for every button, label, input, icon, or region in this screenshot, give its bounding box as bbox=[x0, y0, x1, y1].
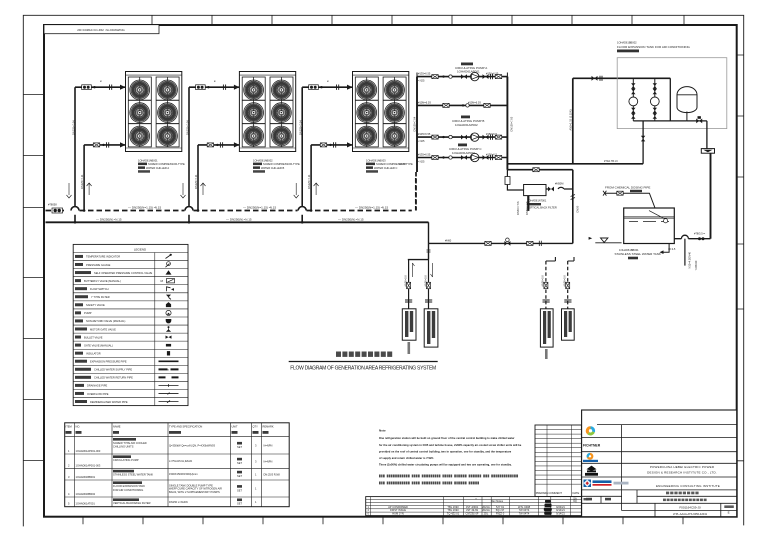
unit 3 supply riser bbox=[298, 87, 352, 222]
svg-text:1OHAD61AP001-003: 1OHAD61AP001-003 bbox=[76, 463, 101, 467]
AHU terminal 2 bbox=[424, 309, 438, 347]
title block frame bbox=[582, 410, 737, 517]
unit 1 inlet arrow top bbox=[120, 85, 126, 90]
svg-text:#135=6.55: #135=6.55 bbox=[418, 152, 431, 156]
makeup pump 2 bbox=[650, 78, 659, 121]
svg-text:DEMINERALISED WATER PIPE: DEMINERALISED WATER PIPE bbox=[90, 400, 128, 404]
svg-text:DN125=7.11: DN125=7.11 bbox=[307, 174, 311, 189]
svg-text:#70A.7B •N: #70A.7B •N bbox=[604, 159, 618, 163]
legend row l4 bbox=[75, 384, 179, 388]
svg-text:POWERCHINA HEBEI ELECTRIC POWE: POWERCHINA HEBEI ELECTRIC POWER bbox=[650, 465, 715, 469]
consultant logo 2 bbox=[583, 453, 598, 462]
unit 1 inlet arrow bottom bbox=[120, 142, 126, 147]
legend row gauge bbox=[75, 262, 170, 268]
svg-text:FLOOR EXPANSION TANK FOR AIR C: FLOOR EXPANSION TANK FOR AIR CONDITIONIN… bbox=[617, 45, 691, 49]
drawing title cells bbox=[663, 492, 734, 517]
unit 3 return valve bbox=[320, 142, 335, 147]
equipment table bbox=[65, 423, 290, 507]
svg-text:ITEM: ITEM bbox=[66, 424, 72, 428]
svg-text:LEGEND: LEGEND bbox=[134, 248, 147, 252]
legend row l5 bbox=[75, 392, 179, 396]
makeup supply drop line bbox=[507, 168, 579, 244]
water level symbol bbox=[589, 237, 622, 243]
expansion tank enclosure bbox=[617, 41, 727, 129]
svg-text:FLOOR EXPANSION TANK: FLOOR EXPANSION TANK bbox=[113, 484, 145, 488]
svg-text:SELF OPERATED PRESSURE CONTROL: SELF OPERATED PRESSURE CONTROL VALVE bbox=[94, 271, 153, 275]
svg-text:PRESSURE GAUGE: PRESSURE GAUGE bbox=[86, 263, 111, 267]
svg-text:1#-TP·: 1#-TP· bbox=[399, 162, 407, 166]
svg-text:1OHAD61AP002: 1OHAD61AP002 bbox=[455, 123, 478, 127]
svg-text:LTPL-AAAA-ATS-6050-42041: LTPL-AAAA-ATS-6050-42041 bbox=[673, 512, 708, 516]
svg-text:#78/3.5 ••: #78/3.5 •• bbox=[694, 231, 705, 235]
svg-text:1OHAD61BB001: 1OHAD61BB001 bbox=[76, 475, 96, 479]
svg-text:#10N=6.03: #10N=6.03 bbox=[418, 100, 431, 104]
svg-text:— DN250(N) •N.15: — DN250(N) •N.15 bbox=[338, 217, 364, 221]
svg-text:N=NPN: N=NPN bbox=[264, 444, 273, 448]
legend row ins bbox=[75, 351, 170, 355]
unit 1 supply riser bbox=[71, 87, 126, 222]
svg-text:FICHTNER: FICHTNER bbox=[583, 443, 601, 447]
svg-text:DRAINAGE PIPE: DRAINAGE PIPE bbox=[87, 384, 107, 388]
unit 2 supply riser bbox=[185, 87, 239, 222]
AHU riser 1 bbox=[404, 260, 415, 309]
expansion enclosure drain bbox=[641, 121, 645, 164]
revision table bbox=[535, 425, 581, 497]
pump C bbox=[471, 153, 502, 161]
svg-text:SET: SET bbox=[237, 474, 242, 478]
water tank label bbox=[615, 248, 661, 259]
svg-text:GATE VALVE (MANUAL): GATE VALVE (MANUAL) bbox=[84, 343, 113, 347]
svg-text:SCREW TYPE AIR COOLED: SCREW TYPE AIR COOLED bbox=[113, 441, 147, 445]
svg-text:E: E bbox=[728, 511, 730, 515]
svg-text:SET: SET bbox=[237, 445, 242, 449]
filter drain bbox=[516, 196, 529, 215]
main pipe labels bbox=[96, 206, 388, 222]
svg-text:JST 49-69: JST 49-69 bbox=[466, 508, 478, 512]
notes bbox=[379, 429, 522, 485]
svg-text:DN125=7.04: DN125=7.04 bbox=[185, 120, 189, 135]
svg-text:2DL: 2DL bbox=[484, 512, 489, 516]
svg-text:5Q1 97: 5Q1 97 bbox=[496, 508, 505, 512]
svg-text:2D=C0Z0A=C1.Z62 ·No DRAWING: 2D=C0Z0A=C1.Z62 ·No DRAWING bbox=[77, 28, 125, 32]
unit 1 supply valve bbox=[82, 80, 112, 90]
svg-text:CHILLING UNITS: CHILLING UNITS bbox=[113, 444, 134, 448]
svg-text:#135=6.55: #135=6.55 bbox=[418, 72, 431, 76]
expansion feed line bbox=[507, 76, 670, 164]
svg-text:EXPANSION PRESSURE PIPE: EXPANSION PRESSURE PIPE bbox=[90, 360, 127, 364]
unit 2 return valve bbox=[207, 142, 222, 147]
svg-text:#135=6.55: #135=6.55 bbox=[418, 132, 431, 136]
revision strip bbox=[366, 497, 582, 516]
svg-text:#N50=5.0: #N50=5.0 bbox=[563, 275, 567, 287]
chiller unit 3 bbox=[353, 72, 409, 152]
svg-text:UNIT: UNIT bbox=[232, 424, 238, 428]
svg-text:• N25: • N25 bbox=[418, 79, 425, 83]
svg-text:SET: SET bbox=[237, 461, 242, 465]
unit 1 return valve bbox=[93, 142, 108, 147]
svg-text:1OHAD61BB002: 1OHAD61BB002 bbox=[76, 492, 96, 496]
svg-text:W/EFF.CURE CAPACITY OF NITROGE: W/EFF.CURE CAPACITY OF NITROGEN AIR bbox=[169, 487, 222, 491]
svg-text:CHILLED WATER RETURN PIPE: CHILLED WATER RETURN PIPE bbox=[94, 376, 133, 380]
equipment table header bbox=[66, 424, 274, 434]
svg-text:N12=4.5DN40: N12=4.5DN40 bbox=[688, 251, 692, 268]
legend row l2 bbox=[75, 368, 179, 372]
circulating pump A branch bbox=[417, 72, 507, 83]
svg-text:— DN250(N=1.15) •N.15: — DN250(N=1.15) •N.15 bbox=[128, 206, 161, 210]
svg-text:HUM JYN: HUM JYN bbox=[392, 512, 404, 516]
makeup water line bbox=[429, 222, 573, 246]
svg-text:SINGLE TANK DOUBLE PUMP TYPE: SINGLE TANK DOUBLE PUMP TYPE bbox=[169, 483, 213, 487]
svg-text:FLOW SWITCH: FLOW SWITCH bbox=[90, 287, 109, 291]
svg-text:#N50=5.0: #N50=5.0 bbox=[404, 275, 408, 287]
svg-text:VERTICAL BACKWASH FILTER: VERTICAL BACKWASH FILTER bbox=[113, 501, 151, 505]
svg-text:NAME: NAME bbox=[113, 424, 121, 428]
legend table bbox=[73, 244, 188, 405]
unit 2 inlet arrow bottom bbox=[234, 142, 240, 147]
equipment row 2 bbox=[68, 455, 272, 467]
svg-text:— DN250(N) •N.15: — DN250(N) •N.15 bbox=[226, 217, 252, 221]
svg-text:— DN250(N=1.15) •N.15: — DN250(N=1.15) •N.15 bbox=[243, 206, 276, 210]
vertical backwash filter bbox=[524, 181, 573, 209]
powerchina logo bbox=[584, 480, 629, 488]
svg-text:#78058: #78058 bbox=[48, 203, 57, 207]
svg-text:TYPE AND SPECIFICATION: TYPE AND SPECIFICATION bbox=[169, 424, 202, 428]
svg-text:L=75m3/h=H,32kVA: L=75m3/h=H,32kVA bbox=[169, 459, 192, 463]
legend row safe bbox=[75, 302, 171, 307]
svg-text:1OHAD61AT001: 1OHAD61AT001 bbox=[527, 199, 547, 203]
svg-text:DN150 L=NxDN: DN150 L=NxDN bbox=[169, 500, 188, 504]
svg-text:F9ZZ 0: F9ZZ 0 bbox=[496, 512, 505, 516]
pump discharge manifold bbox=[413, 77, 514, 170]
svg-text:#N50=5.0: #N50=5.0 bbox=[541, 275, 545, 287]
svg-text:STAINLESS STEEL WATER TANK: STAINLESS STEEL WATER TANK bbox=[615, 252, 661, 256]
svg-text:NON-RETURN VALVE (MANUAL): NON-RETURN VALVE (MANUAL) bbox=[86, 319, 126, 323]
pump B bbox=[471, 133, 502, 141]
AHU riser 4 (dashed) bbox=[563, 257, 575, 309]
unit 2 supply valve bbox=[196, 80, 226, 90]
svg-text:BAGS, WITH 2 SUPPLEMENTARY PUM: BAGS, WITH 2 SUPPLEMENTARY PUMPS bbox=[169, 490, 220, 494]
drawing title bbox=[289, 352, 438, 372]
svg-text:One refrigeration station will: One refrigeration station will be built … bbox=[379, 437, 515, 440]
legend row mbox bbox=[75, 279, 175, 284]
svg-text:DN50=7.0N: DN50=7.0N bbox=[525, 201, 529, 215]
tank overflow bbox=[674, 231, 710, 240]
svg-text:DN150=7.04: DN150=7.04 bbox=[413, 116, 417, 131]
chiller unit 3 label bbox=[366, 158, 413, 172]
svg-text:FIRST ISSUE: FIRST ISSUE bbox=[390, 508, 406, 512]
pump A bbox=[471, 72, 502, 80]
AHU riser 3 (dashed) bbox=[541, 257, 556, 309]
svg-text:FOR AIR CONDITIONING: FOR AIR CONDITIONING bbox=[113, 488, 143, 492]
legend row mgv bbox=[75, 326, 171, 332]
chiller unit 2 bbox=[239, 72, 295, 152]
svg-text:DN125=7.11: DN125=7.11 bbox=[194, 174, 198, 189]
unit 3 inlet arrow bottom bbox=[347, 142, 353, 147]
company names bbox=[647, 465, 720, 488]
chiller unit 2 label bbox=[253, 158, 300, 172]
svg-text:PUMP: PUMP bbox=[84, 311, 92, 315]
svg-text:1OHAD61AB002: 1OHAD61AB002 bbox=[253, 158, 273, 162]
svg-text:DN125=7.04: DN125=7.04 bbox=[71, 120, 75, 135]
pump A label bbox=[455, 63, 487, 74]
svg-text:SCREW COMPRESSOR-TYPE: SCREW COMPRESSOR-TYPE bbox=[376, 162, 413, 166]
equipment row 4 bbox=[68, 481, 257, 496]
svg-text:#N50M: #N50M bbox=[555, 181, 563, 185]
svg-text:SET: SET bbox=[237, 488, 242, 492]
svg-text:ENGINEERING CONSULTING INSTITU: ENGINEERING CONSULTING INSTITUTE bbox=[656, 484, 720, 488]
unit 3 return riser bbox=[294, 145, 353, 212]
svg-text:WATER CHILLER C: WATER CHILLER C bbox=[374, 166, 397, 170]
svg-text:SAFETY VALVE: SAFETY VALVE bbox=[86, 303, 105, 307]
svg-text:#N50=5.0: #N50=5.0 bbox=[424, 275, 428, 287]
svg-text:FROM CHEMICAL DOSING PIPE: FROM CHEMICAL DOSING PIPE bbox=[605, 186, 650, 190]
svg-text:WATER CHILLER B: WATER CHILLER B bbox=[261, 166, 284, 170]
svg-text:— DN250(N=1.15) •N.15: — DN250(N=1.15) •N.15 bbox=[355, 206, 388, 210]
svg-text:1OHAD61AP003: 1OHAD61AP003 bbox=[452, 151, 475, 155]
pump B label bbox=[452, 116, 484, 128]
AHU riser 2 bbox=[424, 260, 433, 309]
svg-text:DN:25/3 R,N8: DN:25/3 R,N8 bbox=[264, 472, 281, 476]
equipment row 3 bbox=[68, 470, 280, 479]
svg-text:PREPARE: PREPARE bbox=[536, 491, 548, 495]
svg-text:Rev Notes: Rev Notes bbox=[491, 499, 504, 503]
svg-text:REMARK: REMARK bbox=[263, 424, 274, 428]
equipment row 1 bbox=[68, 438, 272, 453]
svg-text:1OHAD61AP001: 1OHAD61AP001 bbox=[457, 70, 480, 74]
svg-text:9/14/21: 9/14/21 bbox=[556, 512, 565, 516]
svg-text:N=NPN: N=NPN bbox=[264, 459, 273, 463]
svg-text:1OHAD61AB003: 1OHAD61AB003 bbox=[366, 158, 386, 162]
svg-text:• N25: • N25 bbox=[418, 160, 425, 164]
AHU terminal 1 bbox=[402, 309, 416, 354]
svg-text:9Q: 9Q bbox=[573, 499, 576, 503]
water tank bbox=[624, 208, 675, 244]
legend row nrv bbox=[75, 319, 171, 323]
signature marks bbox=[544, 500, 552, 515]
drain funnel (expansion) bbox=[701, 149, 714, 239]
svg-text:Note: Note bbox=[379, 429, 386, 433]
svg-text:TQ 4Z2 01: TQ 4Z2 01 bbox=[447, 512, 460, 516]
svg-text:1OHAD61AB001: 1OHAD61AB001 bbox=[138, 158, 158, 162]
svg-text:C97Z92 0F: C97Z92 0F bbox=[466, 512, 479, 516]
legend row pump bbox=[75, 310, 171, 315]
svg-text:• N25: • N25 bbox=[418, 139, 425, 143]
drawing number box bbox=[44, 25, 159, 34]
svg-text:TEMPERATURE INDICATOR: TEMPERATURE INDICATOR bbox=[86, 255, 120, 259]
makeup pump 1 bbox=[629, 78, 638, 121]
legend row yfil bbox=[75, 295, 171, 300]
svg-text:provided on the roof of centra: provided on the roof of central control … bbox=[379, 450, 512, 453]
svg-text:CHILLED WATER SUPPLY PIPE: CHILLED WATER SUPPLY PIPE bbox=[94, 368, 132, 372]
black institute logo bbox=[585, 466, 598, 476]
svg-text:— DN250(N) •N.15: — DN250(N) •N.15 bbox=[96, 217, 122, 221]
chiller unit 1 label bbox=[138, 158, 185, 172]
svg-text:7W 04T4: 7W 04T4 bbox=[519, 508, 530, 512]
svg-text:QTY: QTY bbox=[253, 424, 259, 428]
svg-text:Q=350kW Qe=xx/N,QN, P=XX5kW/: Q=350kW Qe=xx/N,QN, P=XX5kW/N93 bbox=[169, 443, 215, 447]
svg-text:SET: SET bbox=[237, 502, 242, 506]
svg-text:DN125=7.11: DN125=7.11 bbox=[80, 174, 84, 189]
legend row tri bbox=[75, 270, 172, 275]
legend row l6 bbox=[75, 400, 179, 404]
svg-text:DN150=7.05: DN150=7.05 bbox=[510, 116, 514, 131]
svg-text:VERTICAL BACK FILTER: VERTICAL BACK FILTER bbox=[527, 205, 557, 209]
chiller unit 1 bbox=[126, 72, 182, 152]
svg-text:OVERFLOW PIPE: OVERFLOW PIPE bbox=[87, 392, 109, 396]
backwash filter line bbox=[505, 170, 524, 190]
AHU terminal 3 bbox=[540, 309, 553, 359]
pump suction manifold bbox=[399, 77, 417, 211]
svg-text:1OHAD61AP001-003: 1OHAD61AP001-003 bbox=[76, 449, 101, 453]
expansion vessel bbox=[677, 87, 697, 121]
svg-text:Y TYPE FILTER: Y TYPE FILTER bbox=[91, 295, 110, 299]
svg-text:for the air conditioning syste: for the air conditioning system in CCB a… bbox=[379, 444, 522, 447]
svg-text:of supply and return chilled w: of supply and return chilled water is 7/… bbox=[379, 457, 434, 460]
legend row gate bbox=[75, 343, 171, 347]
svg-text:7W 04T4: 7W 04T4 bbox=[519, 512, 530, 516]
svg-text:9/14/21: 9/14/21 bbox=[556, 508, 565, 512]
approval cells bbox=[584, 498, 612, 501]
svg-text:7.08N40: 7.08N40 bbox=[694, 260, 698, 270]
circulating pump C branch bbox=[417, 152, 507, 163]
chilled water return main (dashed) bbox=[46, 178, 416, 211]
svg-text:TBL 1693: TBL 1693 bbox=[447, 508, 459, 512]
AHU terminal 4 bbox=[562, 309, 575, 340]
legend row flag bbox=[75, 287, 174, 291]
svg-text:BUTTERFLY VALVE (MANUAL): BUTTERFLY VALVE (MANUAL) bbox=[84, 279, 121, 283]
unit 2 inlet arrow top bbox=[234, 85, 240, 90]
svg-text:1500X1500X1500(H)mm: 1500X1500X1500(H)mm bbox=[169, 472, 198, 476]
unit 2 return riser bbox=[181, 145, 240, 212]
svg-text:INSULATOR: INSULATOR bbox=[86, 351, 101, 355]
legend row therm bbox=[75, 254, 172, 259]
return main gate valve bbox=[48, 203, 63, 214]
svg-text:BULLET VALVE: BULLET VALVE bbox=[84, 335, 103, 339]
expansion bottom header bbox=[633, 78, 707, 148]
svg-text:Three (2x50%) chilled water ci: Three (2x50%) chilled water circulating … bbox=[379, 464, 512, 467]
svg-text:SCREW COMPRESSOR-TYPE: SCREW COMPRESSOR-TYPE bbox=[263, 162, 300, 166]
legend row ball bbox=[75, 335, 172, 339]
svg-text:COMMENT: COMMENT bbox=[549, 491, 563, 495]
svg-text:STAINLESS STEEL WATER TANK: STAINLESS STEEL WATER TANK bbox=[113, 473, 153, 477]
unit 1 return riser bbox=[67, 145, 126, 212]
tank bottom drain bbox=[660, 239, 699, 271]
circulating pump B branch bbox=[417, 132, 507, 143]
svg-text:DN125=7.04: DN125=7.04 bbox=[299, 120, 303, 135]
svg-text:DN50: DN50 bbox=[576, 205, 580, 212]
svg-text:FLOW DIAGRAM OF GENERATION ARE: FLOW DIAGRAM OF GENERATION AREA REFRIGER… bbox=[290, 365, 436, 371]
svg-text:AN5=1.15 (1.15N): AN5=1.15 (1.15N) bbox=[569, 109, 573, 130]
equipment row 5 bbox=[68, 498, 257, 505]
pump C label bbox=[449, 144, 482, 156]
svg-text:10.3-5: 10.3-5 bbox=[668, 247, 676, 251]
svg-text:DESIGN & RESEARCH INSTITUTE CO: DESIGN & RESEARCH INSTITUTE CO., LTD. bbox=[647, 470, 717, 474]
svg-text:CIRCULATING PUMP: CIRCULATING PUMP bbox=[113, 458, 139, 462]
svg-text:#10N=6.03: #10N=6.03 bbox=[468, 100, 481, 104]
svg-text:WATER CHILLER A: WATER CHILLER A bbox=[146, 166, 169, 170]
AHU riser header bbox=[408, 243, 431, 259]
svg-text:2021A: 2021A bbox=[482, 508, 490, 512]
svg-text:#N60: #N60 bbox=[445, 238, 452, 242]
svg-text:MOTOR GATE VALVE: MOTOR GATE VALVE bbox=[90, 327, 116, 331]
chemical dosing line bbox=[603, 186, 655, 208]
unit 3 inlet arrow top bbox=[347, 85, 353, 90]
svg-text:SCREW COMPRESSOR-TYPE: SCREW COMPRESSOR-TYPE bbox=[148, 162, 185, 166]
svg-text:NO.: NO. bbox=[76, 424, 81, 428]
svg-text:DN50=7.5N: DN50=7.5N bbox=[516, 201, 520, 215]
standby cross branch bbox=[417, 100, 507, 107]
chilled water supply main (solid) bbox=[46, 221, 429, 224]
svg-text:F001164C59-J0: F001164C59-J0 bbox=[679, 506, 701, 510]
svg-text:DATE: DATE bbox=[573, 491, 580, 495]
svg-text:1OHAD61AT001: 1OHAD61AT001 bbox=[76, 502, 96, 506]
legend row l1 bbox=[75, 360, 179, 364]
unit 3 supply valve bbox=[309, 80, 339, 90]
legend row l3 bbox=[75, 376, 179, 380]
FICHTNER logo bbox=[583, 426, 601, 447]
